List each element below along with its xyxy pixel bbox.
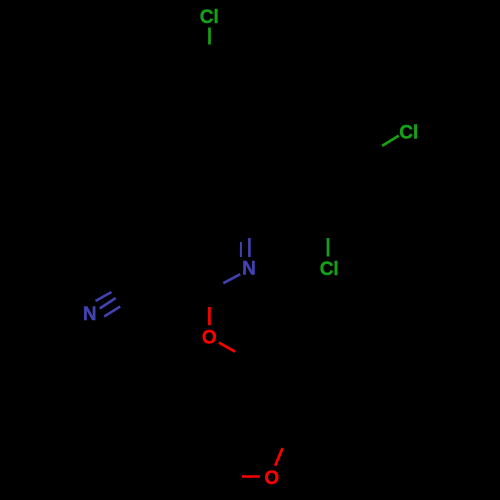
triple bond N2#C blue half, bottom line: [104, 307, 120, 317]
triple bond N2#C blue half, top line: [96, 292, 112, 301]
bond N1-C2 blue half (down-left diagonal): [223, 274, 240, 283]
bond O2-C red half (up-right steep diagonal): [275, 448, 283, 466]
bond N1=C6 blue half, inner double line: [240, 242, 242, 257]
chlorine Cl2 label (right): [399, 122, 418, 143]
bond CH2-O2 red half (horizontal left): [242, 475, 260, 478]
bond O1-CH2 red half (down-right diagonal): [219, 343, 235, 352]
pyridine nitrogen N1 label: [242, 259, 256, 280]
svg-text:Cl: Cl: [200, 7, 219, 28]
bond C-Cl3 green half (vertical): [327, 238, 330, 257]
triple bond N2#C blue half, middle line: [100, 298, 116, 309]
chlorine Cl1 label (top): [200, 7, 219, 28]
svg-text:N: N: [83, 304, 97, 325]
ring oxygen O2 label (bottom): [264, 468, 279, 489]
chlorine Cl3 label (middle): [320, 259, 339, 280]
bond C2-O1 red half (vertical up): [208, 307, 211, 325]
svg-text:O: O: [202, 328, 217, 349]
bond N1=C6 blue half, main line: [248, 238, 251, 257]
svg-text:Cl: Cl: [399, 122, 418, 143]
bond C-Cl2 green half (diagonal): [382, 136, 399, 146]
svg-text:O: O: [264, 468, 279, 489]
svg-text:Cl: Cl: [320, 259, 339, 280]
nitrile nitrogen N2 label: [83, 304, 97, 325]
ether oxygen O1 label: [202, 328, 217, 349]
svg-text:N: N: [242, 259, 256, 280]
bond C-Cl1 green half (vertical): [208, 28, 211, 45]
